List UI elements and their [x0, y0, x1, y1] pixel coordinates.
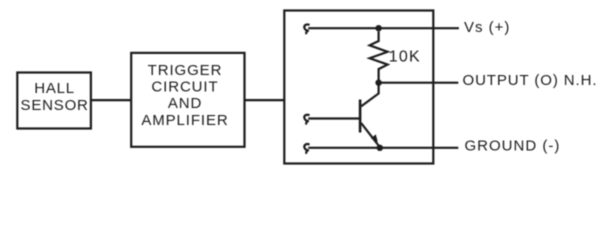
connection curl on ground wire	[304, 144, 309, 154]
wire trigger block to enclosure	[245, 99, 285, 101]
svg-text:AMPLIFIER: AMPLIFIER	[141, 112, 228, 129]
terminal label OUTPUT (O) N.H.	[463, 72, 598, 89]
transistor Q1 NPN	[360, 86, 379, 147]
wire hall sensor to trigger block	[91, 99, 131, 101]
block TRIGGER CIRCUIT AND AMPLIFIER box	[131, 53, 244, 147]
label TRIGGER CIRCUIT AND AMPLIFIER	[141, 62, 228, 129]
wire ground line	[308, 147, 458, 149]
block HALL SENSOR box	[17, 73, 91, 129]
svg-text:CIRCUIT: CIRCUIT	[151, 79, 218, 96]
terminal label Vs (+)	[464, 19, 510, 36]
svg-text:TRIGGER: TRIGGER	[148, 62, 223, 79]
wire output line	[379, 82, 459, 84]
junction dot on ground line at emitter	[377, 145, 383, 151]
svg-text:AND: AND	[168, 95, 202, 112]
svg-text:Vs (+): Vs (+)	[464, 19, 510, 36]
junction dot at resistor bottom / output node	[375, 80, 381, 86]
connection curl on Vs wire	[304, 24, 309, 34]
enclosure box (sensor package outline)	[284, 11, 433, 164]
svg-text:SENSOR: SENSOR	[21, 97, 89, 114]
connection curl on base wire	[304, 115, 309, 125]
svg-text:OUTPUT (O) N.H.: OUTPUT (O) N.H.	[463, 72, 598, 89]
svg-text:10K: 10K	[389, 49, 421, 66]
svg-text:HALL: HALL	[34, 80, 75, 97]
wire Vs supply line	[308, 27, 459, 29]
value label 10K	[389, 49, 421, 66]
resistor R 10K	[370, 32, 388, 81]
terminal label GROUND (-)	[465, 138, 561, 155]
label HALL SENSOR	[21, 80, 89, 114]
junction dot on Vs line	[375, 25, 381, 31]
svg-text:GROUND (-): GROUND (-)	[465, 138, 561, 155]
wire base input line	[308, 117, 360, 119]
